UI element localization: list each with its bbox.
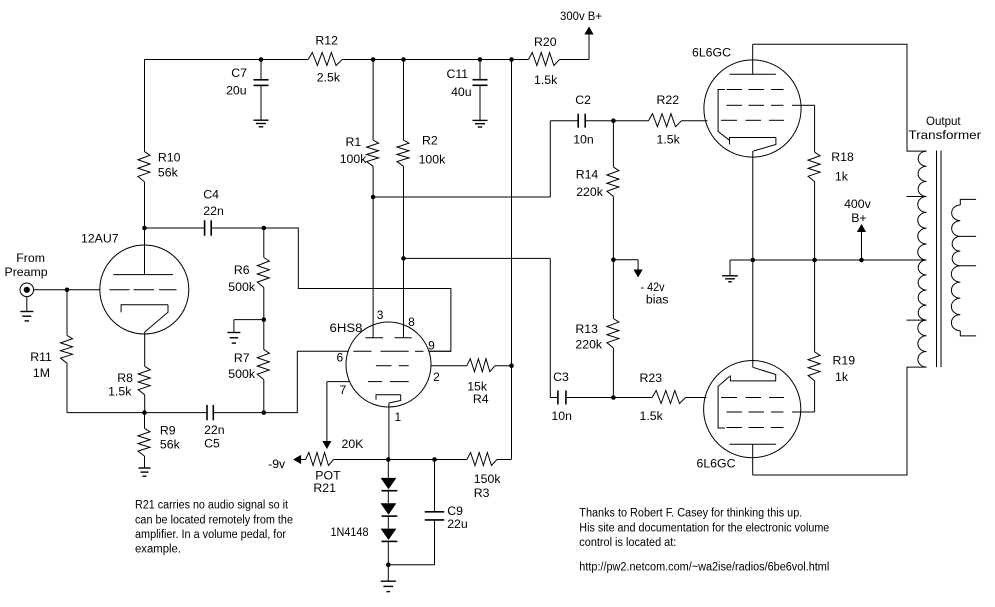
wire R19 to 400v line [814, 260, 816, 352]
6L6 upper control grid hook [718, 90, 729, 141]
label 6L6GC lower [697, 457, 736, 471]
wire rail to R1 [372, 60, 374, 141]
svg-text:C11: C11 [447, 67, 469, 81]
svg-text:3: 3 [377, 308, 384, 322]
wire junction to R23 [613, 397, 652, 399]
power 400v B+ arrow [844, 197, 872, 232]
6L6 upper screen lead [801, 104, 815, 106]
svg-text:can be located remotely from t: can be located remotely from the [135, 514, 293, 526]
wire C3 to junction [566, 397, 614, 399]
node junction R4 on center rail [509, 363, 514, 368]
label R1 value 100k [340, 135, 368, 166]
svg-text:2.5k: 2.5k [317, 71, 341, 85]
label C3 value 10n [551, 370, 572, 423]
wire bias stub [613, 260, 638, 270]
svg-text:1.5k: 1.5k [534, 73, 558, 87]
svg-text:bias: bias [646, 293, 669, 307]
svg-text:8: 8 [408, 315, 415, 329]
ground below C7 [254, 120, 269, 127]
wire R13 to C3 junction [612, 348, 614, 398]
svg-text:R2: R2 [422, 134, 438, 148]
pin 1 label [395, 410, 402, 424]
wire C7 to rail [260, 60, 262, 80]
node junction C5 R7 [262, 410, 267, 415]
transformer T1 primary winding [918, 151, 927, 367]
svg-text:6L6GC: 6L6GC [697, 457, 736, 471]
transformer secondary top tap [960, 199, 976, 205]
label 1N4148 [331, 525, 369, 539]
svg-text:R8: R8 [117, 371, 133, 385]
label C2 value 10n [573, 93, 594, 147]
svg-text:R1: R1 [346, 135, 362, 149]
wire R8 to junction [144, 395, 146, 413]
wire R19 to screen [814, 381, 816, 412]
node junction C4 tap [142, 226, 147, 231]
resistor R1 [367, 140, 379, 166]
ground at R6 R7 divider [227, 333, 240, 344]
svg-text:R21: R21 [313, 481, 336, 495]
wire screen to R18 [814, 105, 816, 152]
svg-text:1.5k: 1.5k [640, 409, 664, 423]
wire junction to R22 [613, 120, 648, 122]
svg-text:From: From [16, 251, 45, 265]
wire C11 to rail [479, 60, 481, 80]
svg-text:100k: 100k [340, 152, 368, 166]
svg-text:500k: 500k [228, 280, 256, 294]
resistor R20 [529, 53, 560, 66]
pin 3 label [377, 308, 384, 322]
pin 7 label [340, 383, 347, 397]
note text about R21 [135, 500, 293, 556]
transformer primary tap stub upper [907, 196, 927, 198]
svg-text:12AU7: 12AU7 [81, 232, 119, 246]
svg-text:C7: C7 [231, 66, 247, 80]
wire C4 loop to 6HS8 pin 9 [264, 228, 451, 351]
node junction diode top [386, 457, 391, 462]
pot wiper arrow [322, 441, 331, 449]
svg-text:56k: 56k [160, 438, 181, 452]
svg-text:Output: Output [926, 114, 961, 128]
transformer secondary tap 3 [960, 265, 976, 267]
wire R9 to ground [144, 456, 146, 468]
6L6 lower plate [730, 444, 776, 475]
wire 400v arrow stem [861, 232, 863, 261]
wire D1 to D2 [387, 491, 389, 504]
wire center rail x511 [511, 60, 513, 460]
triode U1 12AU7 envelope [100, 245, 189, 334]
label R13 value 220k [575, 322, 603, 352]
wire ground stub [387, 565, 389, 581]
6L6 upper grid row3 dashed [721, 119, 784, 121]
svg-text:R12: R12 [315, 34, 338, 48]
svg-text:His site and documentation for: His site and documentation for the elect… [579, 522, 829, 534]
ground at output cathodes [722, 276, 738, 282]
wire pot left to -9v arrow [300, 459, 306, 461]
wire R14 to bias junction [612, 196, 614, 259]
label R8 value 1.5k [108, 371, 133, 399]
wire R10 to 12AU7 plate [144, 182, 146, 275]
node junction R1 C2 loop [371, 195, 376, 200]
label C9 value 22u [447, 504, 468, 531]
svg-text:1.5k: 1.5k [657, 133, 681, 147]
label R6 value 500k [228, 263, 256, 294]
svg-text:control is located at:: control is located at: [579, 537, 676, 549]
6L6 upper grid row1 dashed [727, 89, 784, 91]
input jack J1 [20, 283, 34, 297]
node junction R2 top on rail [401, 57, 406, 62]
resistor R11 [61, 335, 73, 363]
resistor R13 [607, 260, 619, 348]
wire C5 left lead [145, 412, 208, 414]
svg-text:100k: 100k [419, 153, 447, 167]
capacitor C2 [578, 114, 585, 128]
node junction R2 C3 loop [401, 256, 406, 261]
label C4 value 22n [203, 188, 224, 218]
wire B+ rail top left segment [145, 59, 309, 61]
ground stub at output stage [730, 260, 753, 276]
label POT R21 [313, 469, 341, 496]
svg-text:6HS8: 6HS8 [330, 321, 363, 335]
resistor R12 [308, 53, 342, 66]
6HS8 pin 7 lead [327, 381, 350, 383]
svg-text:C9: C9 [447, 504, 463, 518]
svg-text:R11: R11 [30, 350, 52, 364]
wire R4 to center rail [495, 365, 512, 367]
svg-text:22u: 22u [447, 517, 468, 531]
svg-text:500k: 500k [228, 367, 256, 381]
potentiometer R21 20K [306, 453, 334, 466]
svg-text:1k: 1k [835, 170, 849, 184]
svg-text:6L6GC: 6L6GC [692, 46, 731, 60]
credits text [579, 507, 829, 573]
pin 8 label [408, 315, 415, 329]
wire pin8 plate line to C3 corner [404, 258, 551, 397]
wire R3 to center rail corner [497, 459, 512, 461]
svg-text:C5: C5 [204, 437, 220, 451]
node junction R6 top [262, 226, 267, 231]
label 6HS8 [330, 321, 363, 335]
resistor R6 [257, 228, 269, 288]
svg-text:Thanks to Robert F. Casey for: Thanks to Robert F. Casey for thinking t… [579, 507, 802, 519]
transformer core [937, 151, 942, 368]
12AU7 cathode [121, 305, 168, 332]
6L6 lower grid row2 dashed [727, 411, 802, 413]
6HS8 grid row pin2 dashed [376, 365, 409, 367]
6L6 lower grid row1 dashed [721, 397, 784, 399]
wire upper cathode down to ground node [752, 151, 754, 260]
resistor R23 [652, 391, 685, 404]
label C5 value 22n [204, 423, 225, 451]
label R12 value 2.5k [315, 34, 340, 85]
svg-text:R10: R10 [158, 151, 181, 165]
svg-text:R22: R22 [657, 93, 680, 107]
6HS8 grid row pin7 dashed [368, 381, 409, 383]
label R4 value 15k [467, 380, 489, 407]
label C7 value 20u [226, 66, 247, 98]
node junction C9 top [432, 457, 437, 462]
svg-text:300v B+: 300v B+ [560, 9, 602, 23]
pin 6 label [337, 351, 344, 365]
transformer primary tap stub lower [907, 319, 927, 321]
label R18 value 1k [831, 150, 854, 184]
svg-text:22n: 22n [203, 204, 224, 218]
svg-text:22n: 22n [204, 423, 225, 437]
node junction R14 top [611, 118, 616, 123]
svg-text:R13: R13 [575, 322, 598, 336]
wire pot right to diode junction [334, 459, 389, 461]
wire 6HS8 cathode pin1 down [388, 403, 390, 460]
wire lower plate to transformer bottom [753, 367, 927, 475]
transformer T1 secondary winding [951, 205, 960, 331]
wire 12AU7 cathode to R8 [144, 332, 146, 366]
resistor R3 [467, 453, 497, 466]
wire D3 to ground junction [387, 541, 389, 564]
wire upper plate to transformer top [753, 44, 927, 151]
svg-text:R7: R7 [234, 351, 250, 365]
ground below diodes [381, 581, 396, 591]
ground below R9 [139, 468, 151, 476]
pentode U2 6HS8 envelope [346, 322, 431, 407]
6L6 lower control grid hook [718, 376, 729, 428]
node junction R8 R9 C5 [142, 410, 147, 415]
power -42v bias arrow [634, 270, 669, 307]
6L6 upper plate [730, 44, 776, 74]
svg-text:http://pw2.netcom.com/~wa2ise/: http://pw2.netcom.com/~wa2ise/radios/6be… [579, 562, 829, 574]
svg-text:220k: 220k [576, 185, 604, 199]
node junction R11 tap [65, 288, 70, 293]
wire C2 to R22 [585, 120, 613, 122]
diode D2 1N4148 [381, 503, 398, 516]
label R19 value 1k [833, 354, 856, 385]
svg-text:40u: 40u [451, 85, 472, 99]
label 6L6GC upper [692, 46, 731, 60]
6L6 lower grid row3 dashed [727, 427, 784, 429]
node junction cathode ground [751, 258, 756, 263]
node junction C3 R13 [611, 395, 616, 400]
wire C4 to R6 junction [211, 227, 264, 229]
node junction rail drop [509, 57, 514, 62]
capacitor C9 [425, 512, 445, 520]
capacitor C4 [205, 220, 212, 236]
svg-text:7: 7 [340, 383, 347, 397]
svg-text:R20: R20 [534, 35, 557, 49]
wire C9 tap to R3 [435, 459, 467, 461]
wire R2 to 6HS8 plate pin 8 [403, 166, 405, 337]
resistor R22 [649, 114, 682, 127]
wire B+ rail middle segment [342, 59, 528, 61]
label R22 value 1.5k [657, 93, 681, 147]
label R10 value 56k [158, 151, 181, 180]
svg-text:220k: 220k [575, 338, 603, 352]
wire rail to R2 [403, 60, 405, 141]
wire R6 to R7 [263, 288, 265, 350]
svg-text:R18: R18 [831, 150, 854, 164]
wire lower cathode from ground node [752, 260, 754, 367]
node junction R18 R19 [812, 258, 817, 263]
node junction diode C9 ground [386, 563, 391, 568]
svg-text:amplifier. In a volume pedal,: amplifier. In a volume pedal, for [135, 529, 286, 541]
wire C7 to ground [260, 85, 262, 120]
wire R11 bottom to R8 R9 junction [67, 363, 145, 412]
svg-text:example.: example. [135, 543, 181, 555]
wire R23 to lower 6L6 grid [686, 397, 707, 399]
transformer secondary bottom tap [960, 331, 976, 336]
label R11 value 1M [30, 350, 52, 380]
svg-text:Transformer: Transformer [909, 128, 982, 142]
wire R7 to C5 junction [263, 380, 265, 413]
resistor R9 [138, 413, 150, 457]
svg-text:R4: R4 [473, 392, 489, 406]
12AU7 grid dashed [110, 289, 177, 291]
6HS8 grid row pin6 pin9 dashed [353, 350, 423, 352]
capacitor C7 [254, 80, 269, 86]
wire C5 junction to 6HS8 pin 6 [264, 351, 348, 412]
wire ground stub R6 R7 [234, 320, 264, 333]
svg-text:R14: R14 [576, 168, 599, 182]
6L6 upper grid row2 dashed [727, 104, 802, 106]
wire R11 top [66, 290, 68, 336]
label R14 value 220k [576, 168, 604, 199]
node junction C11 on rail [478, 57, 483, 62]
svg-text:B+: B+ [851, 211, 866, 225]
svg-text:R3: R3 [474, 486, 490, 500]
svg-text:56k: 56k [158, 166, 179, 180]
6L6 lower screen lead [801, 411, 815, 413]
pentode U4 6L6GC lower envelope [704, 361, 801, 458]
svg-text:1.5k: 1.5k [108, 385, 132, 399]
label Output Transformer [909, 114, 982, 142]
capacitor C3 [558, 391, 566, 405]
wire C5 to R7 junction [213, 412, 263, 414]
label R7 value 500k [228, 351, 256, 381]
wire junction to C9 tap [388, 459, 434, 461]
resistor R18 [808, 152, 820, 181]
svg-text:R21 carries no audio signal so: R21 carries no audio signal so it [135, 500, 289, 512]
resistor R14 [607, 167, 619, 196]
wire C2 left lead [550, 120, 578, 122]
svg-text:1M: 1M [33, 366, 50, 380]
svg-text:10n: 10n [573, 133, 594, 147]
svg-text:1: 1 [395, 410, 402, 424]
label 12AU7 [81, 232, 119, 246]
svg-text:R9: R9 [160, 424, 176, 438]
transformer secondary tap 2 [960, 235, 976, 237]
6L6 upper cathode [730, 138, 776, 152]
capacitor C5 [207, 405, 213, 420]
wire R1 to 6HS8 plate pin 3 [372, 166, 374, 337]
wire C9 top lead [434, 460, 436, 512]
wire C9 bottom to ground junction [388, 520, 434, 565]
svg-text:1k: 1k [835, 370, 849, 384]
node junction R1 top on rail [371, 57, 376, 62]
pin 9 label [428, 339, 435, 353]
wire R14 top lead [612, 121, 614, 167]
pin 2 label [433, 370, 440, 384]
resistor R19 [808, 352, 820, 381]
wire R18 to 400v line [814, 182, 816, 260]
resistor R4 [467, 359, 495, 372]
6HS8 plate pin 3 [366, 337, 384, 339]
svg-text:2: 2 [433, 370, 440, 384]
power -9v arrow [268, 455, 301, 471]
svg-text:9: 9 [428, 339, 435, 353]
node junction R6 R7 ground tap [262, 317, 267, 322]
svg-text:20K: 20K [342, 437, 365, 451]
resistor R10 [138, 152, 150, 182]
wire jack to ground [26, 297, 28, 312]
label From Preamp [5, 251, 48, 279]
label R23 value 1.5k [640, 371, 664, 423]
ground below input jack [20, 312, 33, 321]
wire D2 to D3 [387, 516, 389, 529]
6HS8 plate pin 8 [395, 337, 412, 339]
resistor R2 [397, 140, 409, 166]
wire junction to D1 [387, 460, 389, 478]
power 300v B+ arrow [560, 9, 602, 35]
ground below C11 [473, 120, 488, 127]
wire jack to 12AU7 grid [34, 289, 100, 291]
svg-text:6: 6 [337, 351, 344, 365]
node junction 400v arrow [859, 258, 864, 263]
svg-text:400v: 400v [844, 197, 872, 211]
wire 400v line [753, 259, 927, 261]
wire C3 left lead [550, 397, 558, 399]
label R20 value 1.5k [534, 35, 558, 87]
wire C4 left lead [145, 227, 205, 229]
svg-text:10n: 10n [551, 409, 572, 423]
resistor R8 [138, 366, 150, 395]
svg-text:C2: C2 [575, 93, 591, 107]
node junction C7 on rail [259, 57, 264, 62]
diode D3 1N4148 [381, 529, 398, 542]
pentode U3 6L6GC upper envelope [704, 60, 801, 157]
label R9 value 56k [160, 424, 181, 452]
6L6 lower cathode [730, 367, 775, 381]
svg-text:R6: R6 [234, 263, 250, 277]
svg-text:R23: R23 [640, 371, 663, 385]
svg-text:C3: C3 [553, 370, 569, 384]
node junction bias tap [611, 257, 616, 262]
wire R22 to 6L6 grid [682, 120, 708, 122]
capacitor C11 [473, 80, 488, 86]
wire pin7 down to pot wiper [326, 382, 328, 442]
wire C11 to ground [479, 85, 481, 120]
svg-text:C4: C4 [203, 188, 219, 202]
6HS8 pin2 lead to R4 [431, 365, 467, 367]
wire R20 to 300v arrow [560, 34, 590, 60]
svg-text:150k: 150k [474, 472, 502, 486]
svg-text:Preamp: Preamp [5, 265, 48, 279]
6HS8 pin 9 lead [429, 350, 451, 352]
svg-text:-9v: -9v [268, 457, 286, 471]
6HS8 cathode [376, 395, 401, 403]
diode D1 1N4148 [381, 478, 398, 491]
label C11 value 40u [447, 67, 472, 99]
svg-text:1N4148: 1N4148 [331, 525, 369, 539]
label R3 value 150k [474, 472, 502, 500]
wire pin3 plate line to C2 corner [373, 121, 550, 197]
svg-text:20u: 20u [226, 84, 247, 98]
12AU7 plate [113, 274, 173, 276]
label R2 value 100k [419, 134, 447, 167]
wire rail down to R10 [144, 60, 146, 152]
svg-text:R19: R19 [833, 354, 856, 368]
label 20K [342, 437, 365, 451]
resistor R7 [257, 350, 269, 380]
